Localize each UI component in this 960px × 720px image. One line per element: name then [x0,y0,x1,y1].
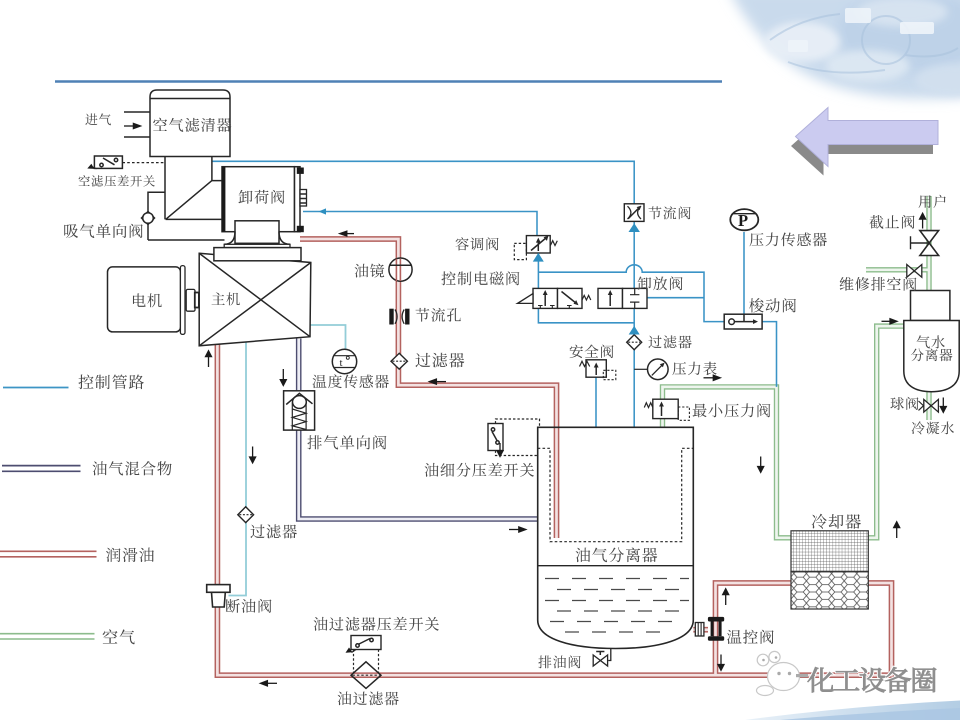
svg-text:t: t [340,357,343,369]
svg-text:P: P [738,211,748,230]
